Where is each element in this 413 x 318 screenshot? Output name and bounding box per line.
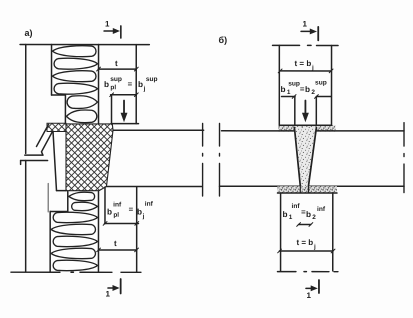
svg-text:b: b — [107, 207, 112, 216]
insulation narrow left edge — [64, 95, 66, 124]
upper wall b edges — [278, 45, 280, 125]
svg-text:t: t — [115, 59, 118, 68]
insulation block C — [69, 192, 98, 211]
insulation left edge lower — [49, 211, 51, 271]
svg-text:b: b — [104, 80, 109, 89]
section mark 1 bottom-left — [105, 279, 120, 299]
wedge right face — [308, 128, 316, 186]
svg-text:sup: sup — [110, 76, 122, 83]
slab b left bottom line — [219, 185, 300, 187]
upper mortar bed stipple band — [278, 125, 336, 131]
insulation left edge upper — [51, 45, 53, 95]
upper wall bottom edge — [279, 124, 331, 126]
svg-text:pl: pl — [113, 212, 119, 219]
label b1^sup = b2^sup — [281, 80, 327, 97]
svg-text:t = b: t = b — [295, 59, 312, 68]
wall inner face below — [136, 187, 138, 272]
upper element bottom edge — [25, 154, 43, 156]
figure label b) — [219, 35, 228, 45]
svg-text:1: 1 — [105, 19, 110, 28]
outer leaf inner edge lower — [47, 183, 49, 211]
outer leaf face below joint — [25, 161, 27, 272]
slab b right bottom line — [308, 185, 403, 187]
t dimension upper — [97, 59, 139, 71]
svg-text:t = b: t = b — [296, 238, 313, 247]
slab b right top line — [316, 130, 404, 132]
slab b left end dash-dot — [218, 124, 220, 196]
label b_pl^inf = b_j^inf — [107, 201, 154, 220]
svg-text:1: 1 — [303, 20, 308, 29]
down arrow a — [121, 100, 127, 121]
svg-text:b: b — [282, 210, 287, 219]
wedge bottom stubs — [300, 186, 308, 193]
top line of wall b (dash-dot over axis) — [273, 44, 339, 46]
svg-text:1: 1 — [287, 89, 291, 96]
label b_pl^sup = b_j^sup — [104, 76, 158, 93]
section mark 1 top-left — [104, 19, 121, 38]
slab a end dash-dot — [202, 123, 204, 196]
svg-text:1: 1 — [289, 214, 293, 221]
insulation step line upper — [52, 94, 66, 96]
console slant band — [37, 124, 49, 146]
insulation block B — [66, 96, 97, 123]
svg-text:j: j — [313, 244, 316, 251]
svg-text:sup: sup — [315, 80, 327, 87]
t dimension lower — [97, 239, 139, 252]
wedge top edge verticals — [294, 97, 296, 127]
svg-text:b: b — [306, 210, 311, 219]
figure label a) — [25, 28, 33, 38]
big crosshatch bearing block — [66, 124, 113, 191]
section mark 1 bottom-right — [306, 280, 319, 300]
top line of wall a — [20, 44, 149, 46]
wall inner face above — [135, 45, 137, 124]
svg-text:sup: sup — [146, 76, 158, 83]
insulation right edge upper — [98, 45, 100, 124]
insulation right edge lower — [97, 191, 99, 271]
joint wedge stipple — [294, 127, 316, 193]
t = b_j dimension bottom — [278, 249, 335, 253]
lower wall top edge — [277, 192, 337, 194]
svg-text:pl: pl — [110, 84, 116, 91]
label b1^inf = b2^inf — [282, 203, 325, 221]
svg-text:b: b — [137, 207, 142, 216]
section mark 1 top-right — [301, 20, 318, 41]
lower element top edge with nib — [21, 160, 48, 162]
svg-text:2: 2 — [312, 214, 316, 221]
b_pl sup dimension box — [110, 93, 139, 124]
lower mortar bed stipple band — [277, 186, 337, 193]
slab b right end dash-dot — [403, 123, 405, 193]
svg-text:б): б) — [219, 35, 228, 45]
insulation block D — [51, 212, 97, 270]
insulation block A — [53, 46, 98, 94]
insulation step line lower — [50, 210, 68, 212]
outer leaf face — [25, 45, 27, 154]
svg-text:=: = — [129, 205, 134, 214]
slab b left top line — [222, 130, 295, 132]
insulation narrow left edge lower — [67, 191, 69, 211]
svg-text:=: = — [128, 79, 133, 88]
lower wall b edges — [280, 193, 282, 271]
svg-text:inf: inf — [113, 201, 122, 208]
small crosshatch strip — [47, 123, 66, 131]
t = b_j dimension top — [278, 69, 333, 73]
svg-text:sup: sup — [288, 81, 300, 88]
svg-text:j: j — [143, 85, 146, 92]
b_pl inf dimension box — [103, 187, 139, 225]
svg-text:2: 2 — [311, 89, 315, 96]
svg-text:j: j — [142, 213, 145, 220]
console right edge — [53, 131, 57, 190]
svg-text:t: t — [114, 239, 117, 248]
svg-text:inf: inf — [291, 203, 300, 210]
svg-text:а): а) — [25, 28, 33, 38]
b1 b2 sup dimension lines — [282, 95, 332, 99]
down arrow b — [302, 101, 308, 122]
label t = b_j top — [295, 59, 315, 72]
b inf dimension line — [297, 223, 313, 227]
svg-text:1: 1 — [105, 289, 110, 298]
svg-text:b: b — [138, 80, 143, 89]
svg-text:1: 1 — [306, 291, 311, 300]
slab a top line — [113, 129, 204, 131]
slab a bottom line — [106, 185, 201, 187]
wedge left face — [294, 128, 300, 186]
bottom dash-dot line b — [277, 271, 338, 273]
crosshatch bottom / insulation top lower — [56, 190, 66, 192]
svg-text:b: b — [305, 85, 310, 94]
svg-text:b: b — [281, 85, 286, 94]
label t = b_j bottom — [296, 238, 316, 251]
bottom dash-dot line a — [11, 271, 141, 273]
svg-text:inf: inf — [145, 201, 154, 208]
svg-text:inf: inf — [317, 206, 326, 213]
